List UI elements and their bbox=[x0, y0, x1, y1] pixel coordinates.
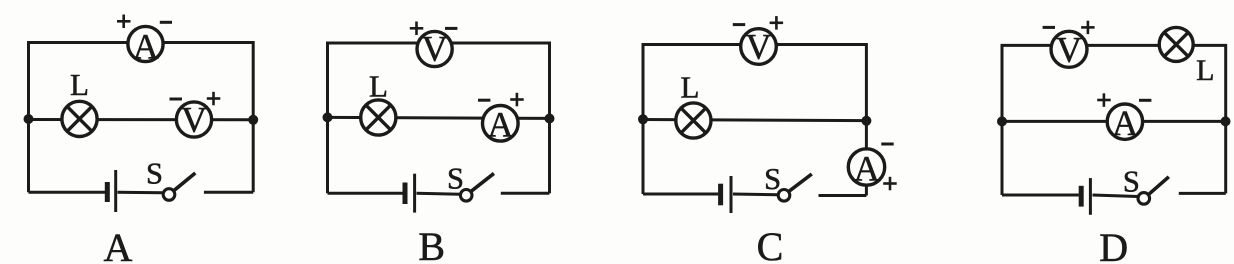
label + (voltmeter D) bbox=[1081, 21, 1095, 34]
ammeter A (circuit D middle) bbox=[1107, 103, 1142, 143]
wire: bottom left B bbox=[328, 192, 403, 195]
svg-text:S: S bbox=[1123, 164, 1140, 198]
label C (circuit letter) bbox=[757, 224, 784, 264]
svg-text:D: D bbox=[1099, 225, 1128, 264]
wire: bottom left A bbox=[29, 191, 106, 194]
svg-text:L: L bbox=[70, 67, 89, 102]
battery C bbox=[721, 176, 731, 213]
switch S (C) bbox=[778, 174, 812, 201]
wire: middle branch D bbox=[1002, 120, 1226, 123]
svg-text:A: A bbox=[133, 27, 159, 67]
switch S (A) bbox=[163, 173, 195, 200]
label - (ammeter C) bbox=[881, 143, 893, 146]
ammeter A (circuit C right branch) bbox=[848, 149, 884, 189]
label D (circuit letter) bbox=[1099, 225, 1128, 264]
node left (D) bbox=[997, 116, 1007, 126]
ammeter A (circuit A top) bbox=[128, 26, 163, 66]
wire: bottom left C bbox=[643, 193, 718, 196]
wire: outer loop top C bbox=[643, 45, 866, 196]
wire: battery to switch C bbox=[733, 193, 778, 197]
label B (circuit letter) bbox=[418, 224, 445, 264]
label - (ammeter A) bbox=[160, 21, 172, 24]
node right (B) bbox=[545, 114, 555, 124]
voltmeter V (circuit C top) bbox=[741, 27, 777, 67]
wire: battery to switch B bbox=[417, 193, 461, 194]
wire: bottom right stub A bbox=[204, 191, 253, 194]
label + (voltmeter B) bbox=[410, 22, 424, 36]
wire: middle branch C bbox=[643, 120, 866, 121]
switch S (D) bbox=[1138, 177, 1169, 204]
wire: bottom right stub C (switch to ammeter) bbox=[819, 194, 867, 197]
svg-text:A: A bbox=[854, 149, 880, 189]
label L (circuit D) bbox=[1196, 54, 1214, 87]
battery A bbox=[107, 170, 115, 212]
node right (A) bbox=[248, 115, 258, 125]
battery B bbox=[405, 174, 415, 213]
svg-text:B: B bbox=[418, 224, 445, 264]
wire: bottom left D bbox=[1002, 194, 1079, 197]
label S (A) bbox=[146, 156, 163, 190]
label - (voltmeter D) bbox=[1043, 26, 1055, 29]
voltmeter V (circuit D top) bbox=[1051, 29, 1087, 69]
lamp L (circuit A) bbox=[62, 101, 97, 136]
label S (D) bbox=[1123, 164, 1140, 198]
svg-text:V: V bbox=[181, 100, 207, 140]
battery D bbox=[1081, 178, 1090, 215]
svg-text:L: L bbox=[369, 68, 388, 103]
label + (ammeter D) bbox=[1097, 93, 1111, 107]
svg-text:S: S bbox=[764, 162, 781, 196]
label L (circuit A) bbox=[70, 67, 89, 102]
wire: bottom right stub B bbox=[501, 192, 550, 195]
wire: middle branch B bbox=[328, 117, 550, 118]
svg-text:V: V bbox=[746, 27, 772, 67]
label L (circuit C) bbox=[681, 70, 700, 105]
wire: middle branch A bbox=[29, 118, 254, 121]
label - (ammeter D) bbox=[1139, 99, 1151, 102]
node right (D) bbox=[1221, 116, 1231, 126]
svg-text:V: V bbox=[422, 29, 448, 69]
voltmeter V (circuit B top) bbox=[417, 29, 452, 69]
label A (circuit letter) bbox=[104, 225, 133, 264]
wire: battery to switch A bbox=[118, 191, 164, 195]
node left (A) bbox=[24, 114, 34, 124]
label + (voltmeter A) bbox=[207, 92, 221, 106]
node left (C) bbox=[638, 114, 648, 124]
svg-text:A: A bbox=[104, 225, 133, 264]
label - (voltmeter A) bbox=[170, 98, 183, 101]
svg-text:A: A bbox=[488, 105, 514, 145]
label - (voltmeter B) bbox=[445, 27, 457, 30]
svg-text:S: S bbox=[447, 161, 464, 195]
svg-text:V: V bbox=[1056, 29, 1082, 69]
lamp L (circuit C) bbox=[676, 103, 711, 138]
label + (ammeter C) bbox=[883, 177, 897, 191]
label - (voltmeter C) bbox=[733, 23, 745, 26]
node right (C) bbox=[861, 116, 871, 126]
wire: outer loop top A bbox=[29, 43, 254, 193]
switch S (B) bbox=[460, 173, 493, 201]
label - (ammeter B) bbox=[478, 99, 490, 102]
label + (voltmeter C) bbox=[770, 16, 784, 30]
lamp L (circuit B) bbox=[361, 100, 396, 135]
label + (ammeter B) bbox=[510, 93, 524, 107]
wire: bottom right stub D bbox=[1179, 192, 1226, 195]
wire: outer loop top B bbox=[328, 43, 550, 193]
label S (B) bbox=[447, 161, 464, 195]
lamp L (circuit D top) bbox=[1159, 27, 1193, 61]
svg-text:L: L bbox=[1196, 54, 1214, 87]
wire: outer loop top D bbox=[1002, 45, 1226, 195]
label S (C) bbox=[764, 162, 781, 196]
svg-text:C: C bbox=[757, 224, 784, 264]
node left (B) bbox=[323, 112, 333, 122]
wire: battery to switch D bbox=[1093, 195, 1138, 197]
label + (ammeter A) bbox=[117, 15, 131, 29]
ammeter A (circuit B middle) bbox=[483, 105, 519, 145]
voltmeter V (circuit A) bbox=[176, 100, 211, 140]
svg-text:S: S bbox=[146, 156, 163, 190]
svg-text:A: A bbox=[1112, 103, 1138, 143]
label L (circuit B) bbox=[369, 68, 388, 103]
svg-text:L: L bbox=[681, 70, 700, 105]
